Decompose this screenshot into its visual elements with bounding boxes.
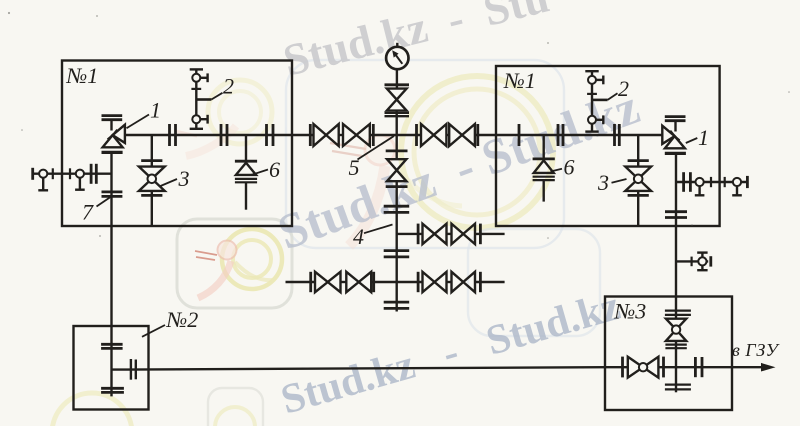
unit box №2 (bottom left) [74,326,149,410]
arrowhead to ГЗУ [761,363,776,372]
flange on main line (left of gate valves) [309,124,312,146]
flange pair on left branch [90,164,93,184]
wire: main flow line (cross to right box) [446,134,449,136]
flange on main line (right of gate valves) [476,124,479,146]
flange above check valve 6 (left) [235,160,257,163]
tick on assembly 2 (right) [587,93,597,95]
tick on left branch (inner) [69,168,71,179]
flange pair at top of box №3 valve [665,310,691,312]
flange on branch 4 (right) [479,224,482,245]
flange before №3 outlet valve [621,357,624,378]
watermark logo (partial, bottom right of center) [468,229,600,336]
angle valve 1 (right), vertical triangle [665,136,685,148]
gate valve on lower line (right a) [423,272,435,292]
tick on right branch (outer) [724,177,726,187]
watermark logo (small, center-left) [177,219,292,308]
flange pair on centre column (middle) [384,249,410,252]
wire: tap line to needle valve (between №1 and №3) [676,260,708,262]
wire: lower bypass line (left part) [286,281,316,283]
tick on tap line [690,257,692,267]
wire: stem of gauge valve assembly 2 (right) [591,71,593,131]
wire: right outlet branch [676,181,708,183]
angle valve 1 (right), horizontal triangle [662,126,674,144]
angle valve 1 (left), vertical triangle [103,135,123,147]
label 5 with leader [358,136,395,160]
flange pair on right branch [682,172,685,192]
watermark logo (faint ring behind left box) [175,80,272,156]
label 6 (left) with leader [251,170,268,176]
needle valve lower of assembly 2 (right) [588,116,596,124]
svg-text:3: 3 [597,170,609,195]
wire: stem of check valve 6 (right) [543,135,545,159]
wire: vertical riser from angle valve 1 (right) down to box №3 [675,155,677,319]
stub above angle valve 1 (right) [674,121,676,132]
flange pair on centre column (upper) [384,205,410,208]
svg-text:2: 2 [618,76,629,101]
svg-text:4: 4 [353,224,364,249]
label 1 (left) with leader [127,115,150,129]
wire: long transfer line from box №2 to box №3 [112,367,606,369]
svg-text:Stud.kz - Stud.kz: Stud.kz - Stud.kz [276,283,625,424]
label 3 (right) with leader [612,179,627,183]
svg-text:5: 5 [349,155,360,180]
svg-text:в ГЗУ: в ГЗУ [732,340,780,360]
svg-text:6: 6 [564,155,575,180]
flange above check valve 6 (right) [533,157,555,160]
wire: stem from gauge valve to main cross [396,111,398,160]
gate valve on main line (left pair, b) [343,124,356,146]
wellhead unit box №1 (left) [62,61,292,227]
flange after №3 outlet valve [662,357,665,378]
unit box №3 (bottom right) [605,297,732,411]
flange pair on outlet (right of cross) [694,357,697,377]
wire: centre column below valve [396,181,398,311]
label 4 with leader [364,225,393,234]
flange pair on main line (right box, 2) [613,124,616,146]
paper speckles [8,12,790,239]
angle valve 1 (left), horizontal triangle [113,125,125,143]
label 2 (left) with leader [196,98,211,101]
flange pair on box №2 outlet [130,359,132,380]
gate valve on lower line (left b) [346,272,358,292]
flange below valve 3 (left) [141,194,162,197]
wire: vertical riser from angle valve 1 (left) down to box №2 [110,154,112,397]
wire: outlet line through cross to ГЗУ [658,366,762,368]
flange on lower line (far left) [309,272,312,292]
pressure gauge (circle with needle) [386,47,408,69]
end flange of right branch [746,176,749,188]
wire: stem of valve 3 (right) [637,135,639,167]
flange pair above angle valve 1 (left) [102,114,123,117]
gate valve in box №3 (horizontal, with spindle circle) [628,357,643,378]
gate valve on main line (left pair, a) [314,124,327,146]
seat pair below check valve 6 (left) [235,178,257,180]
flange below angle valve 1 (right) [665,152,686,155]
wire: left outlet branch [33,172,112,174]
flange pair on main line (right box, 1) [557,124,560,146]
bottom cap of assembly 2 (left) [190,128,203,130]
gate valve in box №3 (vertical, with spindle circle) [666,319,686,330]
seat pair below check valve 6 (right) [533,176,555,178]
flange pair on riser (right, below branch) [665,210,687,213]
flange pair on main line (left box, 2) [220,124,223,146]
flange on main line (right box, single) [518,124,521,146]
wire: lower bypass line (right part) [447,281,452,283]
svg-text:№1: №1 [66,63,99,88]
needle valve upper of assembly 2 (right) [588,76,596,84]
label 1 (right) with leader [686,138,698,143]
needle valve on left branch (inner) [76,170,84,178]
flange on branch 4 (left) [417,224,420,245]
gate valve on lower line (left a) [315,272,328,292]
svg-text:7: 7 [82,200,94,225]
stub above angle valve 1 (left) [110,120,112,131]
needle valve on left branch (outer) [39,170,47,178]
wire: branch 4 [397,233,423,235]
svg-text:1: 1 [698,125,709,150]
flange below angle valve 1 (left) [102,151,123,154]
tick on assembly 2 (left) [191,88,201,90]
gate valve 3 (left) with spindle circle [139,167,165,179]
gate valve on main line (right pair, b) [449,124,462,146]
label №2 with leader [142,325,165,337]
flange above gauge valve [385,83,410,86]
svg-text:6: 6 [269,157,280,182]
flange pair below box №3 vertical valve [665,344,686,346]
flange on lower line (right of cross) [417,272,420,292]
top cap of assembly 2 (right) [585,70,598,72]
gate valve on branch 4 (a) [423,224,435,244]
wire: stem of check valve 6 (left) [245,135,247,161]
flange below valve 3 (right) [628,194,649,197]
flange pair above angle valve 1 (right) [665,115,686,118]
needle valve on tap line (cross handle) [698,257,706,265]
svg-text:3: 3 [178,166,190,191]
flange on main line (right of left gate valves) [372,124,375,146]
flange pair at bottom of centre column [384,301,410,304]
gate valve on main line (right pair, a) [421,124,434,146]
flange above valve 3 (right) [628,159,649,162]
wire: stem of gauge valve assembly 2 (left) [195,69,197,128]
wire: gauge stem [396,69,398,88]
gate valve on branch 4 (b) [452,224,464,244]
svg-text:№1: №1 [503,68,536,93]
svg-text:№3: №3 [614,299,647,324]
label 3 (left) with leader [161,179,178,186]
wellhead unit box №1 (right) [496,66,720,226]
svg-text:1: 1 [150,98,161,123]
label 7 with leader [97,197,111,207]
top cap of assembly 2 (left) [190,68,203,70]
end flange of tap line [709,256,712,266]
gate valve 3 (right) with spindle circle [625,167,651,179]
gate valve on lower line (right b) [452,272,464,292]
flange on lower line (left of cross) [372,272,375,292]
flange on lower line (far right) [479,272,482,292]
flange pair on main line (left box, 1) [168,124,171,146]
flange pair 7 on riser (left) [102,190,123,193]
check valve 6 (right) triangle [534,160,554,173]
wire: main flow line (left box to cross) [125,134,314,136]
needle valve on right branch (inner) [696,178,704,186]
flange below vertical valve [386,185,408,188]
watermark logo (large, center) [286,60,564,248]
watermark logo (partial, bottom left) [52,388,263,426]
svg-text:№2: №2 [166,307,199,332]
check valve 6 (left) triangle [236,163,256,175]
flange pair in box №2 (lower) [101,387,124,390]
flange pair in box №2 (upper) [101,343,123,346]
flange below main cross [386,149,408,152]
gate valve below cross (vertical) [387,159,406,170]
wire: stem of valve 3 (left) [151,135,153,167]
end flange of left branch [31,168,34,180]
bottom cap of assembly 2 (right) [585,130,598,132]
needle valve lower of assembly 2 (left) [192,115,200,123]
gauge gate valve (vertical) [387,89,407,100]
label 6 (right) with leader [551,169,563,172]
label 2 (right) with leader [592,99,608,102]
svg-text:2: 2 [223,74,234,99]
flange pair below №3 cross [665,384,691,386]
flange above valve 3 (left) [141,159,162,162]
tick on right branch (inner) [710,177,712,187]
needle valve upper of assembly 2 (left) [192,74,200,82]
tick on left branch (outer) [52,168,54,179]
flange pair on main line (left box, 3) [265,124,268,146]
needle valve on right branch (outer) [733,178,741,186]
flange on main line (left of right gate valves) [415,124,418,146]
flange pair below gauge valve [385,112,410,114]
